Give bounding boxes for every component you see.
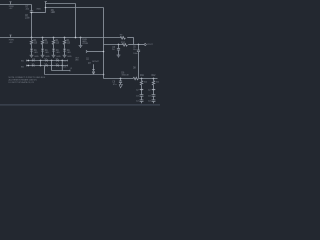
svg-text:1N4148: 1N4148: [121, 75, 129, 77]
svg-text:LED: LED: [34, 52, 38, 54]
svg-text:100n: 100n: [25, 17, 31, 19]
svg-text:LED: LED: [45, 52, 49, 54]
svg-text:10k: 10k: [120, 36, 123, 38]
svg-text:GND: GND: [34, 56, 39, 58]
svg-text:LED: LED: [51, 12, 56, 14]
svg-text:LED: LED: [67, 52, 71, 54]
svg-text:+5V: +5V: [9, 8, 13, 10]
svg-text:VOUT: VOUT: [147, 44, 153, 46]
svg-text:GND: GND: [67, 56, 72, 58]
svg-text:#PWR: #PWR: [82, 43, 88, 45]
svg-text:+5V: +5V: [9, 42, 13, 44]
svg-text:DO NOT POPULATE C8, C9: DO NOT POPULATE C8, C9: [9, 81, 35, 84]
svg-text:J2: J2: [70, 68, 72, 70]
svg-text:LED: LED: [56, 52, 60, 54]
svg-text:BC547: BC547: [92, 61, 99, 63]
